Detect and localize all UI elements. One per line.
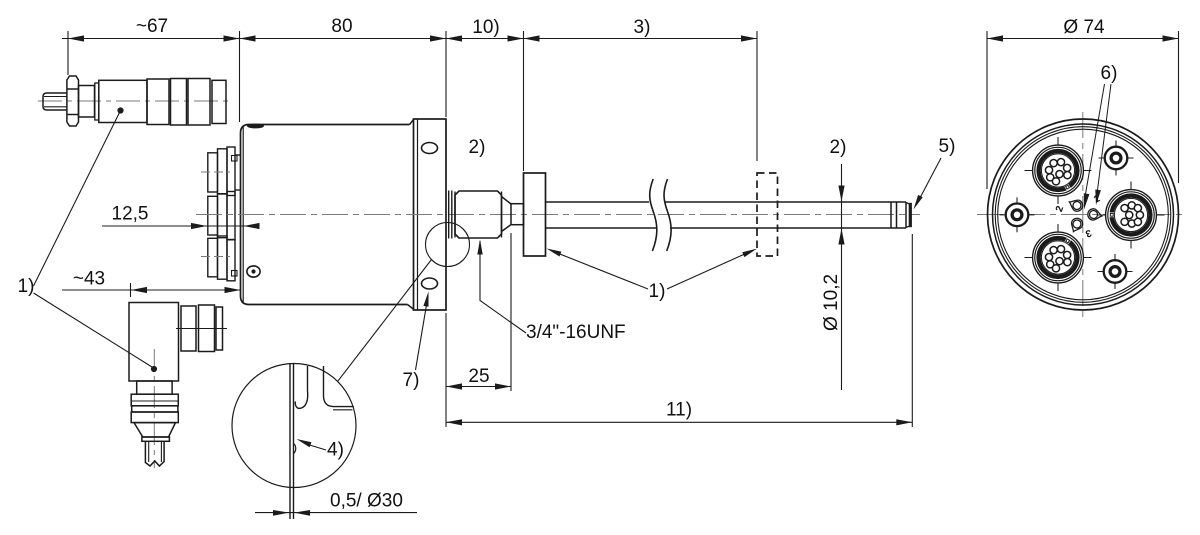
leader 6) line a (1086, 84, 1105, 194)
svg-text:11): 11) (666, 400, 692, 421)
rod break wave 1 (650, 179, 657, 251)
svg-text:3/4"-16UNF: 3/4"-16UNF (526, 322, 626, 343)
angled connector rib 2 (199, 305, 215, 352)
extension line x446 lower (445, 313, 447, 427)
angled connector lip (142, 437, 170, 441)
leader 1) to straight connector (34, 113, 120, 287)
connector reference dot (117, 107, 123, 113)
leader 1) to solid magnet (551, 251, 648, 290)
svg-text:~67: ~67 (136, 16, 168, 37)
end view outer circle (988, 119, 1179, 310)
stack middle connector (208, 192, 235, 240)
svg-text:2): 2) (830, 137, 847, 158)
extension line x446 (445, 31, 447, 117)
detail flange face double line (289, 364, 291, 519)
svg-text:1): 1) (649, 281, 666, 302)
dimension 11) arrows (446, 419, 912, 425)
svg-text:7): 7) (403, 370, 420, 391)
detail profile lower line (333, 409, 353, 411)
center teardrop port 3 (1087, 208, 1103, 222)
svg-text:10): 10) (472, 17, 499, 38)
angled connector rib 3 (216, 307, 223, 350)
flange (414, 119, 447, 310)
dimension ~43 line (62, 289, 241, 291)
detail view circle (232, 364, 356, 488)
angled connector taper (134, 423, 176, 437)
body front screw (247, 266, 260, 277)
rod end cap (909, 203, 912, 227)
svg-text:3: 3 (1083, 227, 1092, 239)
detail profile with step (324, 366, 354, 407)
end view M12 connector bottom-left (1025, 224, 1092, 291)
leader 1) to dashed magnet (667, 251, 753, 290)
extension line x987 (986, 31, 988, 189)
end view inner circle 1 (995, 127, 1171, 303)
magnet ring (solid) (524, 173, 546, 256)
flange bottom slot hole (422, 278, 438, 289)
dimension line top chain (62, 38, 757, 40)
end view inner circle 2 (998, 129, 1169, 300)
angled connector ring 1 inner line (131, 400, 178, 402)
center teardrop port 2 (1068, 216, 1084, 234)
body top chamfer to flange (410, 119, 415, 125)
end view vertical centerline (1082, 112, 1084, 318)
rod break wave 2 (664, 179, 671, 251)
angled connector ring 3 (131, 412, 178, 423)
body outline (241, 125, 410, 305)
detail marker circle (426, 223, 470, 267)
dimension Ø74 line (987, 38, 1179, 40)
angled connector ring 2 (132, 406, 178, 412)
end view horizontal centerline (977, 214, 1182, 216)
connector rib 3 (188, 79, 210, 126)
detail step bump (294, 444, 296, 454)
svg-text:1): 1) (18, 276, 35, 297)
end view M12 connector top-left (1025, 137, 1092, 204)
extension line x912 (911, 234, 913, 427)
neck (511, 204, 524, 225)
angled connector body (129, 303, 179, 382)
extension line x511 (510, 233, 512, 391)
thread 3/4-16UNF body (455, 191, 502, 238)
svg-text:80: 80 (331, 16, 352, 37)
extension line x1178.5 (1178, 31, 1180, 183)
connector rib 2 (171, 79, 187, 126)
end view screw bottom-right (1098, 254, 1133, 289)
washer rings at flange face (448, 191, 450, 239)
svg-text:Ø 10,2: Ø 10,2 (821, 274, 842, 331)
stack bottom connector (208, 236, 237, 281)
svg-text:Ø 74: Ø 74 (1063, 17, 1105, 38)
svg-text:2: 2 (1054, 204, 1066, 213)
angled connector vertical centerline (153, 349, 155, 468)
rod tip chamfer (906, 203, 909, 228)
svg-text:25: 25 (468, 366, 489, 387)
label 4) leader (308, 445, 326, 451)
leader 5) arrow (914, 195, 923, 210)
rod upper edge (546, 201, 907, 203)
leader 1) to angled connector (34, 293, 153, 367)
angled connector cable (145, 441, 164, 466)
svg-text:2): 2) (469, 137, 486, 158)
dimension Ø10,2 arrows (838, 186, 844, 245)
dimension 12,5 arrows (191, 223, 260, 229)
svg-text:1: 1 (1092, 193, 1102, 206)
detail profile hook (295, 366, 307, 408)
leader 3/4 line (480, 241, 526, 333)
stack top connector (208, 147, 241, 196)
body top mark (247, 124, 264, 129)
dimension 0,5 arrows (273, 510, 310, 516)
end view screw top-right (1099, 141, 1134, 176)
dimension 25 arrows (446, 383, 511, 389)
connector body (99, 80, 147, 122)
svg-text:5): 5) (939, 136, 956, 157)
svg-text:~43: ~43 (73, 269, 105, 290)
stack bottom centerline tick (201, 256, 230, 258)
body rear face line (242, 126, 244, 304)
angled connector ring 1 (131, 394, 178, 406)
svg-text:0,5/ Ø30: 0,5/ Ø30 (330, 491, 403, 512)
angled connector rib centerline (176, 328, 227, 330)
leader 5) line (917, 158, 942, 205)
flange face line (417, 119, 419, 310)
extension line x239.5 (239, 31, 241, 122)
dimension 12,5 line (102, 225, 258, 227)
angled connector neck (137, 381, 172, 394)
dimension Ø10,2 line (841, 164, 843, 390)
stack top centerline tick (201, 171, 230, 173)
svg-text:4): 4) (327, 440, 344, 461)
end view M12 connector right (1098, 182, 1165, 249)
dimension 0,5 line (255, 512, 417, 514)
svg-text:12,5: 12,5 (112, 204, 149, 225)
label 4) arrow (297, 439, 312, 447)
dimension ~43 tick (130, 283, 132, 297)
end view screw left (1000, 197, 1035, 232)
dimension Ø74 arrows (987, 35, 1179, 41)
extension line x523.5 (523, 31, 525, 171)
leader 6) line b (1098, 84, 1112, 190)
dimension 11) line (446, 421, 912, 423)
body bottom chamfer to flange (408, 305, 415, 311)
leader 7) arrow (423, 292, 428, 307)
connector rib 4 (212, 80, 226, 123)
extension line x757 (756, 31, 758, 161)
connector centerline (38, 100, 233, 102)
flange top slot hole (422, 143, 438, 154)
dimension 25 line (446, 386, 511, 388)
extension line x68 (67, 31, 69, 75)
rod lower edge (546, 227, 907, 229)
dimension ~43 arrows (131, 287, 241, 293)
leader 7) line (416, 299, 428, 370)
connector collar (79, 86, 95, 118)
connector rib 1 (147, 79, 169, 125)
magnet ring (dashed position) (757, 173, 778, 256)
svg-text:3): 3) (634, 17, 651, 38)
svg-text:6): 6) (1101, 63, 1118, 84)
connector thin ring (95, 83, 99, 120)
rod tip rings (890, 202, 892, 228)
connector hex nut (67, 76, 79, 126)
leader 3/4 arrow (477, 240, 482, 255)
angled connector reference dot (151, 366, 157, 372)
dimension arrows top chain (68, 35, 757, 41)
detail leader line (338, 260, 432, 382)
end view chamfer circle (993, 124, 1174, 305)
cone to rod (502, 197, 512, 232)
angled connector rib 1 (181, 306, 196, 351)
connector cable stub (43, 93, 67, 110)
center teardrop port 1 (1067, 197, 1085, 213)
